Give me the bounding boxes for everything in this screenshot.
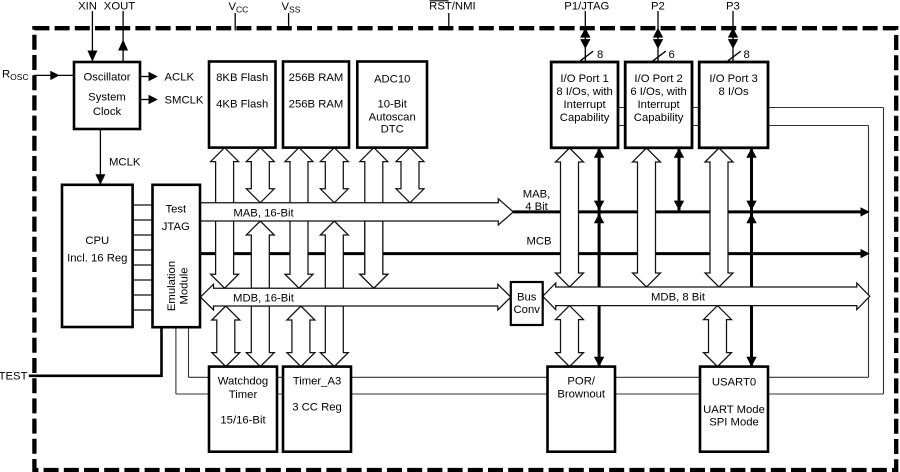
label RST/NMI (429, 0, 475, 12)
svg-text:TEST: TEST (0, 370, 28, 382)
svg-text:SMCLK: SMCLK (165, 94, 204, 106)
wire: I/O port interconnect rail upper (618, 107, 884, 109)
svg-text:4 Bit: 4 Bit (525, 201, 548, 213)
wire SMCLK out (140, 95, 158, 104)
svg-text:System: System (88, 92, 126, 104)
label TEST (0, 370, 28, 382)
label P1/JTAG (564, 0, 609, 12)
svg-text:ACLK: ACLK (165, 71, 195, 83)
label POR text (557, 376, 606, 401)
wire: CPU to JTAG connector lines (133, 205, 153, 310)
svg-text:Watchdog: Watchdog (218, 376, 268, 388)
svg-text:3 CC Reg: 3 CC Reg (292, 401, 342, 413)
CPU block (62, 185, 133, 327)
label P3 (726, 0, 740, 12)
svg-text:MAB, 16-Bit: MAB, 16-Bit (233, 207, 294, 219)
svg-text:256B RAM: 256B RAM (289, 72, 344, 84)
svg-text:I/O Port 2: I/O Port 2 (634, 73, 682, 85)
label SMCLK (165, 94, 204, 106)
bus arrow: MDB to MAB at flash (246, 221, 274, 288)
ADC10 block (357, 62, 427, 148)
svg-text:MCB: MCB (526, 236, 551, 248)
label MAB 16-bit (233, 207, 294, 219)
bus arrow: MAB to MDB at ADC10 (360, 221, 388, 288)
pin P1/JTAG wire (580, 11, 593, 61)
bus arrow: MDB to MAB at RAM (320, 221, 348, 288)
svg-text:MDB, 16-Bit: MDB, 16-Bit (233, 292, 295, 304)
svg-text:CPU: CPU (85, 235, 109, 247)
svg-text:SPI Mode: SPI Mode (709, 416, 759, 428)
bus arrow: MDB to timer (down) (320, 306, 348, 367)
svg-text:VSS: VSS (282, 1, 301, 15)
pin RST/NMI tick (448, 13, 450, 31)
label bus width 6 at P2 (669, 49, 675, 61)
svg-text:Capability: Capability (634, 112, 684, 124)
svg-text:VCC: VCC (229, 1, 249, 15)
label ROSC (2, 69, 29, 83)
label XOUT (104, 0, 135, 12)
svg-text:8KB Flash: 8KB Flash (216, 72, 268, 84)
svg-text:I/O Port 1: I/O Port 1 (560, 73, 608, 85)
bus arrow: port3 to MDB8 (705, 148, 733, 287)
label MDB 8-bit (651, 291, 706, 303)
label Test JTAG text (162, 203, 190, 233)
label MAB 4-bit (523, 188, 551, 213)
svg-text:POR/: POR/ (567, 376, 595, 388)
label port2 text (630, 73, 687, 124)
label watchdog text (218, 376, 268, 427)
svg-text:DTC: DTC (381, 123, 404, 135)
wire MCLK to CPU (95, 129, 105, 185)
label MCB (526, 236, 551, 248)
svg-text:MDB, 8 Bit: MDB, 8 Bit (651, 291, 706, 303)
bus arrow: port1 to MDB8 (556, 148, 584, 287)
svg-text:6: 6 (669, 49, 675, 61)
svg-text:Timer: Timer (229, 389, 258, 401)
label MCLK (109, 156, 141, 168)
svg-text:8: 8 (744, 49, 750, 61)
svg-text:XOUT: XOUT (104, 0, 135, 12)
bus arrow: port2 to MDB8 (633, 148, 661, 287)
I/O port 1 block (551, 62, 618, 148)
wire: emulation to peripheral rail 2 (175, 327, 177, 394)
bus arrow: ADC10 to MDB (long) (360, 148, 388, 289)
label VCC (229, 1, 249, 15)
label oscillator text (83, 71, 130, 118)
svg-text:Interrupt: Interrupt (638, 99, 681, 111)
svg-text:JTAG: JTAG (162, 221, 190, 233)
POR brownout block (548, 367, 616, 452)
svg-text:Clock: Clock (93, 106, 122, 118)
bus converter block (511, 282, 543, 325)
RAM block (283, 62, 349, 148)
label flash text (216, 72, 268, 111)
svg-text:XIN: XIN (78, 0, 97, 12)
wire: peripheral rail upper (189, 376, 869, 378)
label port1 text (556, 73, 613, 124)
label timer text (292, 376, 342, 414)
svg-text:ADC10: ADC10 (374, 73, 410, 85)
label P2 (651, 0, 665, 12)
pin ROSC wire (34, 71, 74, 80)
bus arrow: MDB to watchdog (down) (246, 306, 274, 367)
label bus conv text (514, 291, 541, 316)
bus MAB 4-bit thick line (513, 207, 870, 216)
svg-text:MCLK: MCLK (109, 156, 141, 168)
svg-text:USART0: USART0 (712, 377, 756, 389)
wire ACLK out (140, 72, 158, 81)
I/O port 2 block (625, 62, 692, 148)
svg-text:Emulation: Emulation (166, 261, 178, 311)
label ADC text (369, 73, 416, 135)
label bus width 8 at P1 (597, 49, 603, 61)
pin VSS tick (288, 13, 290, 31)
pin P2 wire (653, 11, 666, 61)
svg-text:RST/NMI: RST/NMI (429, 0, 475, 12)
bus arrow: MDB8 to POR (double) (556, 306, 584, 367)
pin XOUT wire (118, 11, 128, 62)
wire: right loop vertical outer (883, 108, 885, 395)
bus arrow: flash to MAB (246, 148, 274, 203)
svg-text:10-Bit: 10-Bit (377, 99, 407, 111)
bus arrow: MDB to watchdog (double) (212, 306, 240, 367)
svg-text:15/16-Bit: 15/16-Bit (220, 415, 266, 427)
svg-text:I/O Port 3: I/O Port 3 (709, 73, 757, 85)
wire: TEST line (29, 327, 162, 376)
pin P3 wire (728, 11, 741, 61)
svg-text:Incl. 16 Reg: Incl. 16 Reg (67, 252, 127, 264)
label port3 text (709, 73, 757, 98)
svg-text:Test: Test (165, 203, 187, 215)
bus MCB thick line (200, 249, 870, 258)
label ACLK (165, 71, 195, 83)
bus arrow: RAM to MAB (320, 148, 348, 203)
svg-text:8: 8 (597, 49, 603, 61)
svg-text:Autoscan: Autoscan (369, 111, 416, 123)
label bus width 8 at P3 (744, 49, 750, 61)
bus arrow: RAM to MDB (long) (285, 148, 313, 289)
svg-text:8 I/Os: 8 I/Os (719, 86, 749, 98)
svg-text:P1/JTAG: P1/JTAG (564, 0, 609, 12)
label MDB 16-bit (233, 292, 295, 304)
USART0 block (700, 367, 768, 452)
svg-text:UART Mode: UART Mode (703, 404, 765, 416)
svg-text:Interrupt: Interrupt (564, 99, 607, 111)
wire: P3 thick vertical to USART0 (746, 148, 756, 367)
label USART text (703, 377, 765, 429)
svg-text:6 I/Os, with: 6 I/Os, with (630, 86, 687, 98)
bus arrow: ADC10 to MAB (396, 148, 424, 203)
pin VCC tick (234, 13, 236, 31)
bus MDB 16-bit (201, 284, 511, 310)
bus arrow: flash to MDB (long) (211, 148, 239, 289)
wire: emulation to peripheral rail 1 (188, 327, 190, 377)
wire: peripheral rail lower (176, 393, 884, 395)
svg-text:4KB Flash: 4KB Flash (216, 98, 268, 110)
watchdog timer block (209, 367, 277, 452)
svg-text:Conv: Conv (514, 304, 541, 316)
wire: I/O port interconnect rail lower (618, 125, 869, 127)
svg-text:P3: P3 (726, 0, 740, 12)
svg-text:8 I/Os, with: 8 I/Os, with (556, 86, 613, 98)
I/O port 3 block (699, 62, 768, 148)
label CPU text (67, 235, 127, 265)
label RAM text (289, 72, 344, 111)
svg-text:ROSC: ROSC (2, 69, 29, 83)
oscillator block (74, 62, 140, 129)
wire: right loop vertical inner (868, 126, 870, 378)
svg-text:Module: Module (179, 267, 191, 304)
timer A3 block (283, 367, 351, 452)
bus MDB 8-bit (543, 283, 870, 310)
bus arrow: MDB to timer (double) (287, 306, 315, 367)
wire: P2 thick vertical to MAB4 (674, 148, 684, 210)
svg-text:Capability: Capability (560, 112, 610, 124)
emulation module block (153, 185, 201, 327)
pin XIN wire (87, 11, 97, 62)
bus arrow: MDB8 to USART0 (double) (704, 306, 732, 367)
label XIN (78, 0, 97, 12)
svg-text:Brownout: Brownout (557, 388, 606, 400)
svg-text:Bus: Bus (517, 291, 537, 303)
label VSS (282, 1, 301, 15)
wire: P1 thick vertical to POR (594, 148, 604, 367)
svg-text:Oscillator: Oscillator (83, 71, 130, 83)
svg-text:256B RAM: 256B RAM (289, 98, 344, 110)
svg-text:MAB,: MAB, (523, 188, 551, 200)
svg-text:Timer_A3: Timer_A3 (293, 376, 342, 388)
label emulation module rotated text (166, 261, 191, 311)
bus MAB 16-bit (200, 199, 513, 225)
flash memory block (209, 62, 276, 148)
svg-text:P2: P2 (651, 0, 665, 12)
